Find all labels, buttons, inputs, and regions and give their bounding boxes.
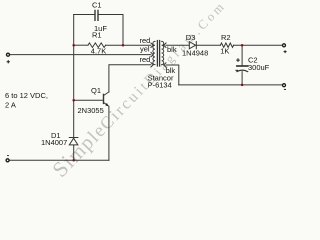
wire C2 top lead <box>241 45 243 65</box>
wire blk bottom to corner <box>166 65 179 85</box>
transistor Q1 emitter arrowhead <box>105 103 108 106</box>
wire row1 left of R1 <box>74 44 88 46</box>
capacitor C2 top plate <box>237 65 248 67</box>
svg-text:yel: yel <box>140 45 150 54</box>
wire vertical below D1 <box>73 145 75 160</box>
wire C1 top left <box>74 14 95 16</box>
svg-text:6 to 12 VDC,: 6 to 12 VDC, <box>5 91 48 100</box>
wire row3 collector to transformer <box>109 65 151 92</box>
diode D1 cathode bar <box>69 137 78 139</box>
terminal bottom left - <box>6 159 9 162</box>
wire row2 input to transformer <box>9 54 150 56</box>
chevron left pin yel <box>151 52 153 56</box>
junction dot R1 right <box>122 44 125 47</box>
svg-text:red: red <box>139 55 150 64</box>
diode D3 triangle <box>189 42 195 49</box>
wire bottom row <box>9 159 109 161</box>
terminal input + <box>7 53 10 56</box>
junction dot base <box>72 99 75 102</box>
transformer T1 right winding <box>162 41 164 64</box>
wire C1 right vertical <box>122 15 124 46</box>
svg-text:1K: 1K <box>220 47 229 56</box>
capacitor C1 plates <box>95 10 98 20</box>
wire C1 loop left vertical (node A vertical rail) <box>73 15 75 138</box>
diode D3 cathode bar <box>195 42 197 49</box>
watermark SimpleCircuitDiagram.Com <box>47 0 230 182</box>
svg-text:C1: C1 <box>92 1 102 10</box>
wire row1 right of R1 to transformer <box>106 44 151 46</box>
svg-text:R1: R1 <box>92 31 102 40</box>
junction dot R1 left <box>72 44 75 47</box>
resistor R1 zigzag <box>88 43 106 48</box>
terminal output + <box>283 44 286 47</box>
svg-text:2N3055: 2N3055 <box>78 106 104 115</box>
wire C1 top right <box>99 14 123 16</box>
transformer T1 core bars <box>157 41 159 67</box>
label - at C2 <box>235 69 238 71</box>
chevron left pin red top <box>151 43 153 47</box>
label - at bottom left <box>7 155 9 157</box>
transistor Q1 base bar <box>103 94 105 103</box>
svg-text:1N4948: 1N4948 <box>182 48 208 57</box>
wire D3 to R2 <box>196 44 220 46</box>
wire C2 bottom lead <box>241 72 243 85</box>
diode D1 triangle <box>69 138 78 145</box>
svg-text:2 A: 2 A <box>5 100 16 109</box>
svg-text:blk: blk <box>167 45 177 54</box>
chevron left pin red bottom <box>151 63 153 67</box>
chevron right pin blk bottom <box>164 63 166 67</box>
junction dot C2 bottom <box>241 84 244 87</box>
svg-text:300uF: 300uF <box>248 63 270 72</box>
transistor Q1 collector diagonal <box>104 92 109 96</box>
label + at input <box>7 60 10 63</box>
resistor R2 zigzag <box>220 43 233 47</box>
junction dot C2 top <box>241 44 244 47</box>
svg-text:1N4007: 1N4007 <box>41 138 67 147</box>
chevron right pin blk top <box>164 43 166 47</box>
transformer T1 left winding <box>153 41 155 64</box>
svg-text:R2: R2 <box>221 33 231 42</box>
svg-text:4.7K: 4.7K <box>91 47 106 56</box>
svg-text:Q1: Q1 <box>91 86 101 95</box>
wire R2 to + terminal <box>234 44 283 46</box>
wire blk top to D3 <box>166 44 189 46</box>
svg-text:P-6134: P-6134 <box>148 80 172 89</box>
label + at output <box>284 50 287 53</box>
wire bottom right row <box>179 84 283 86</box>
wire Q1 base <box>74 99 104 101</box>
wire emitter down <box>108 106 110 160</box>
label + at C2 <box>236 58 240 62</box>
junction dot bottom <box>72 159 75 162</box>
transistor Q1 emitter diagonal <box>104 102 109 105</box>
terminal output - <box>283 84 286 87</box>
svg-text:D3: D3 <box>186 33 196 42</box>
capacitor C2 bottom curved plate <box>237 70 248 71</box>
label - at output <box>284 88 286 90</box>
